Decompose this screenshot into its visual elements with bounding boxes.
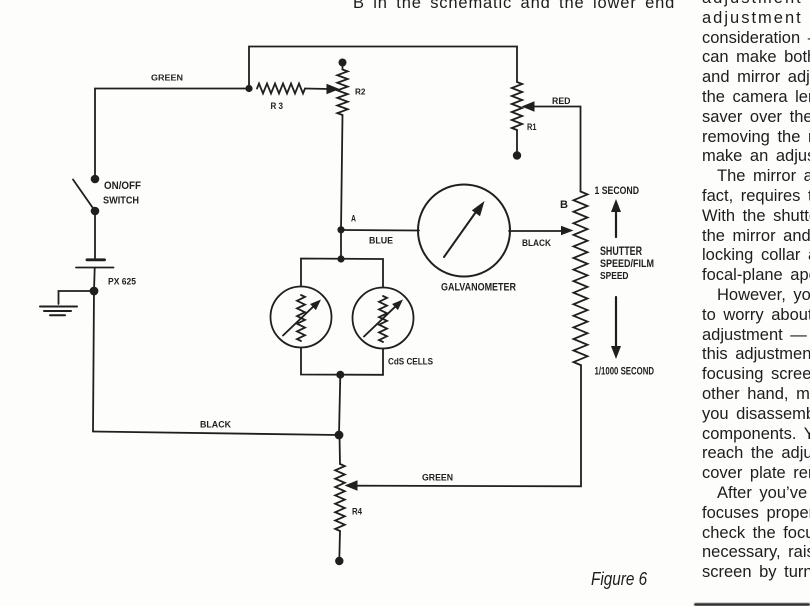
wire ground branch (59, 291, 95, 304)
arrowhead B pot wiper (561, 226, 574, 236)
arrowhead galvanometer needle (472, 201, 485, 216)
caption top: B in the schematic and the lower end (353, 0, 675, 13)
node CdS top junction dot (337, 255, 344, 262)
wire GREEN top from battery branch to node (95, 89, 249, 180)
CdS cell 1 body (271, 287, 332, 348)
wire left down to BLACK (93, 291, 94, 432)
resistor R1 (pot) (512, 82, 522, 130)
svg-text:1 SECOND: 1 SECOND (595, 185, 640, 197)
svg-text:SPEED/FILM: SPEED/FILM (600, 258, 654, 270)
svg-text:ON/OFF: ON/OFF (104, 180, 141, 192)
node GREEN junction dot (245, 85, 252, 92)
wire R2 top lead (342, 66, 344, 70)
arrowhead R4 wiper (345, 480, 358, 490)
CdS cell 2 resistor (379, 296, 387, 342)
terminal R2 top dot (339, 59, 347, 67)
arrowhead CdS cell 2 (392, 300, 403, 311)
wire CdS bottom bus (301, 348, 383, 375)
svg-text:R 3: R 3 (271, 101, 284, 111)
svg-text:SHUTTER: SHUTTER (600, 245, 642, 258)
node CdS bottom junction dot (336, 371, 344, 379)
arrowhead scale up (611, 199, 621, 212)
switch lever (73, 180, 95, 212)
svg-text:RED: RED (552, 96, 571, 107)
svg-text:B: B (560, 199, 568, 211)
svg-text:PX 625: PX 625 (108, 277, 136, 287)
wire R4 bottom terminal lead (338, 531, 341, 560)
figure caption (591, 569, 647, 590)
battery PX 625 plates (87, 258, 105, 261)
svg-text:R4: R4 (352, 507, 362, 517)
scale arrow down (1/1000 second) (615, 297, 617, 350)
svg-text:R1: R1 (527, 122, 537, 133)
wire BLACK bottom (93, 432, 339, 436)
arrowhead CdS cell 1 (310, 300, 321, 311)
wire R1 bottom lead (516, 130, 518, 154)
CdS cell 1 resistor (297, 295, 305, 341)
node switch bottom dot (91, 207, 100, 216)
resistor R3 (257, 84, 305, 94)
node BLACK junction dot (335, 431, 344, 440)
svg-text:GREEN: GREEN (422, 473, 453, 484)
terminal R4 bottom dot (335, 557, 343, 565)
arrowhead R1 wiper (522, 101, 535, 111)
wire R2 bottom to node A (341, 115, 343, 230)
wire BLUE node A to galvanometer (341, 229, 419, 232)
bottom right scan smudge (694, 603, 810, 606)
galvanometer U1 body (418, 185, 510, 277)
wire node A down to CdS top junction (340, 230, 342, 259)
arrowhead R2 wiper (327, 84, 340, 94)
resistor B shutter-speed pot (574, 192, 588, 366)
resistor R2 (pot) (337, 70, 347, 116)
svg-text:GALVANOMETER: GALVANOMETER (441, 281, 516, 293)
CdS cell 1 arrow (283, 304, 316, 336)
node battery lower junction dot (90, 287, 99, 296)
svg-text:R2: R2 (355, 88, 366, 97)
svg-text:BLUE: BLUE (369, 236, 393, 246)
terminal R1 bottom dot (513, 151, 521, 159)
wire R3 to R2 wiper (305, 88, 330, 91)
scale arrow up (1 second) (615, 208, 617, 237)
svg-text:GREEN: GREEN (151, 72, 183, 82)
svg-text:BLACK: BLACK (522, 238, 551, 249)
wire BLACK junction up to CdS bottom (339, 375, 340, 435)
wire switch to battery (94, 211, 96, 258)
svg-text:1/1000 SECOND: 1/1000 SECOND (595, 366, 655, 378)
wire CdS top bus (301, 259, 383, 288)
svg-text:CdS CELLS: CdS CELLS (388, 357, 433, 367)
svg-text:SPEED: SPEED (600, 271, 629, 282)
ground (40, 307, 77, 316)
svg-text:SWITCH: SWITCH (103, 196, 139, 207)
wire battery to lower junction (93, 268, 96, 291)
galvanometer needle (444, 209, 478, 257)
CdS cell 2 body (353, 288, 414, 349)
wire BLACK junction down to R4 (339, 435, 342, 464)
arrowhead scale down (611, 346, 621, 359)
wire galvanometer to B pot wiper (509, 230, 562, 232)
node switch top dot (91, 175, 100, 184)
wire R4 wiper to GREEN riser (351, 365, 581, 486)
resistor R4 (pot) (335, 464, 345, 531)
right text column (702, 0, 810, 583)
CdS cell 2 arrow (364, 304, 398, 337)
wire B pot top to RED (527, 107, 581, 192)
svg-text:A: A (351, 214, 356, 224)
node A dot (337, 226, 344, 233)
wire top rail (249, 47, 517, 89)
svg-text:BLACK: BLACK (200, 420, 231, 431)
